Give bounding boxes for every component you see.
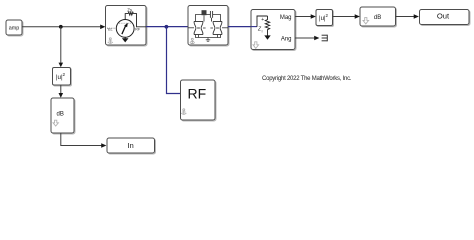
ground arrow load <box>264 35 270 39</box>
svg-text:Mag: Mag <box>280 15 292 21</box>
wire circle top to Zs <box>125 14 128 20</box>
wire Amplifier to Outport (blue) <box>228 26 251 28</box>
load wire up <box>257 16 268 27</box>
anchor icon Amplifier <box>190 38 195 44</box>
wire abs-square upper to dB upper <box>333 14 360 19</box>
amplifier icon transistor stage left <box>194 22 203 35</box>
wire abs-square to dB lower <box>59 85 64 98</box>
node junction blue <box>165 25 169 29</box>
svg-text:Copyright 2022 The MathWorks,: Copyright 2022 The MathWorks, Inc. <box>262 76 352 82</box>
amplifier icon top rail <box>196 15 221 22</box>
load resistor Zl zigzag <box>265 16 269 36</box>
wire Ang to terminator <box>295 36 319 41</box>
amplifier icon transistor stage right <box>213 22 222 35</box>
svg-text:Zs: Zs <box>127 7 133 12</box>
terminator symbol <box>322 35 328 42</box>
anchor icon RF block <box>181 109 186 115</box>
svg-text:dB: dB <box>374 15 381 21</box>
source circle <box>116 20 134 38</box>
svg-text:Out: Out <box>437 12 450 21</box>
amplifier icon bottom rail and ground <box>196 35 221 42</box>
blue stub inside Outport <box>251 26 257 28</box>
svg-text:EL: EL <box>108 28 113 32</box>
wire junction down to abs-square <box>59 27 64 68</box>
wire amp to Inport EL <box>22 25 105 30</box>
svg-text:RF: RF <box>187 86 206 102</box>
block Inport source U1 <box>106 6 147 46</box>
svg-text:RF: RF <box>135 28 141 32</box>
block Amplifier A1 <box>188 6 228 46</box>
wire Zs to RF port <box>133 14 146 27</box>
block Outport load U2 <box>251 10 295 50</box>
svg-text:dB: dB <box>57 111 64 117</box>
amplifier icon choke box <box>202 10 207 15</box>
dotted envelope inside circle <box>119 22 132 24</box>
block dB upper <box>360 7 396 26</box>
amplifier icon coupling cap <box>210 11 212 22</box>
wire dB upper to Out <box>396 14 419 19</box>
block |u|^2 lower <box>53 68 71 86</box>
wire dB lower to In <box>61 133 107 148</box>
block RF label <box>181 80 216 120</box>
resistor Zs zigzag <box>128 12 133 15</box>
download icon Outport <box>253 42 259 49</box>
svg-text:+: + <box>261 17 264 23</box>
block |u|^2 upper <box>316 10 333 26</box>
wire Mag to abs-square upper <box>295 14 316 19</box>
dotted EL lead <box>107 27 116 29</box>
svg-text:In: In <box>128 141 134 150</box>
node junction on amp wire <box>59 25 63 29</box>
anchor icon Inport <box>108 38 113 44</box>
ground under source circle <box>122 37 129 42</box>
wire junction to RF label block (blue) <box>167 27 181 94</box>
block amp (Constant) <box>6 20 22 35</box>
wire RF Inport to Amplifier (blue) <box>146 26 188 28</box>
svg-text:Ang: Ang <box>281 36 292 42</box>
block dB lower <box>51 98 74 133</box>
block In (Display) <box>107 138 155 153</box>
amplifier icon port stubs <box>188 27 194 29</box>
svg-text:amp: amp <box>9 26 20 32</box>
arrow inside source circle <box>122 23 128 34</box>
block Out <box>420 10 470 25</box>
